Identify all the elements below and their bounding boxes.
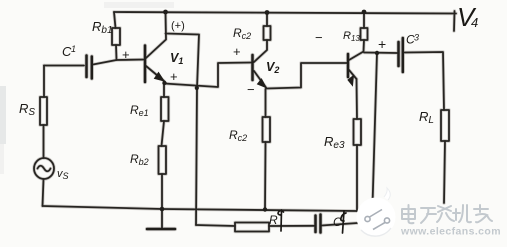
svg-text:−: − <box>247 82 255 97</box>
svg-text:+: + <box>170 69 178 84</box>
node ground junction <box>160 207 165 212</box>
node Re2 rail <box>263 207 267 211</box>
svg-text:Rb2: Rb2 <box>130 152 149 167</box>
ink pass <box>34 11 456 232</box>
svg-text:V2: V2 <box>266 60 279 75</box>
svg-text:+: + <box>378 36 386 52</box>
watermark circle logo <box>357 188 396 237</box>
svg-text:R: R <box>269 213 278 227</box>
svg-text:Re1: Re1 <box>130 103 149 118</box>
svg-text:Re3: Re3 <box>324 134 345 151</box>
node top rail V1 <box>163 10 168 15</box>
svg-text:V1: V1 <box>170 51 183 66</box>
node top rail V2 <box>265 10 270 15</box>
svg-text:3: 3 <box>414 33 419 43</box>
node output tap <box>375 51 379 55</box>
svg-text:RL: RL <box>419 109 434 126</box>
watermark chinese text <box>402 205 492 223</box>
arrow emitter V1 <box>155 73 165 82</box>
node top rail V3 <box>362 10 367 15</box>
svg-text:−: − <box>315 30 323 45</box>
svg-text:+: + <box>122 47 130 62</box>
label C3 <box>406 33 419 47</box>
svg-text:vS: vS <box>57 168 69 181</box>
svg-text:Rb1: Rb1 <box>92 19 113 36</box>
svg-text:Rc2: Rc2 <box>233 26 251 41</box>
svg-text:RS: RS <box>19 101 35 118</box>
svg-text:4: 4 <box>471 15 478 30</box>
svg-text:www.elecfans.com: www.elecfans.com <box>400 226 501 238</box>
scan smudge left edge lower <box>0 144 4 174</box>
halo pass <box>34 11 456 232</box>
svg-text:(+): (+) <box>171 20 185 32</box>
scan smudge left edge <box>0 86 6 144</box>
scan smudge top <box>104 2 174 8</box>
node feedback tap <box>195 86 199 90</box>
label C1 <box>62 44 76 59</box>
node emitter V1 <box>162 81 166 85</box>
svg-text:+: + <box>233 44 241 59</box>
svg-text:R13: R13 <box>343 30 360 43</box>
svg-text:Rc2: Rc2 <box>229 128 247 143</box>
svg-text:1: 1 <box>71 44 76 54</box>
arrow emitter V3 <box>348 76 354 86</box>
arrow emitter V2 <box>258 79 267 88</box>
